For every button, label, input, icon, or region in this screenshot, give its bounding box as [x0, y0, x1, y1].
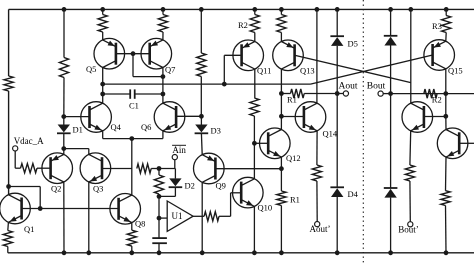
- wire branch right: [9, 186, 41, 188]
- terminal Aout: [339, 82, 358, 97]
- terminal Aout': [310, 222, 331, 235]
- wire R2 to Q11 emitter: [254, 33, 256, 42]
- svg-text:D3: D3: [211, 126, 221, 136]
- wire Q16 collector node up to Bout line: [445, 94, 447, 117]
- svg-text:Q4: Q4: [111, 122, 122, 132]
- node C2 on rail: [157, 250, 162, 255]
- wire bend down into Q3 collector: [88, 149, 90, 155]
- wire top rail to R(Q7): [162, 9, 164, 14]
- resistor R1 horizontal: [287, 89, 304, 105]
- wire Q4/Q6 emitter bus: [103, 138, 163, 140]
- node D4 on rail: [335, 250, 340, 255]
- wire Q16 emitter down: [445, 157, 448, 191]
- wire Q16 collector up: [445, 116, 447, 129]
- svg-text:Ain: Ain: [172, 145, 186, 155]
- wire Q6 emitter down: [162, 131, 164, 139]
- resistor above Q13 (unlabeled): [277, 15, 286, 33]
- op-amp U1: [167, 201, 193, 231]
- wire Q14 emitter down: [316, 131, 318, 165]
- wire rail to R(Q13): [280, 9, 282, 14]
- node D1 / Q2 emitter junction: [61, 146, 66, 151]
- wire Vdac down: [14, 151, 16, 168]
- wire bottom rail: [8, 252, 474, 254]
- node Q4 base on D1 line: [61, 114, 66, 119]
- wire Q5 collector down: [102, 68, 104, 95]
- wire R201 down to Q6 base node: [200, 77, 202, 117]
- wire Vdac right: [15, 167, 20, 169]
- diode D1: [57, 125, 83, 135]
- wire Q4 emitter down: [102, 131, 104, 139]
- diode D3: [195, 125, 221, 136]
- node Q8 emitter on rail: [129, 250, 134, 255]
- node Q3 emitter on rail: [86, 250, 91, 255]
- node R2v on rail: [444, 250, 449, 255]
- wire Q9 base right: [215, 168, 281, 170]
- svg-text:R3: R3: [432, 21, 442, 31]
- wire corner up: [230, 193, 232, 217]
- svg-text:Q13: Q13: [300, 66, 315, 76]
- node top rail x=201.3: [199, 7, 204, 12]
- svg-text:Vdac_A: Vdac_A: [14, 136, 44, 146]
- svg-text:Aout: Aout: [339, 82, 358, 92]
- terminal Bout': [398, 222, 419, 235]
- wire V+ top rail: [9, 8, 474, 10]
- wire node down to Q10 collector: [253, 143, 255, 179]
- wire over to Q7 collector: [133, 76, 163, 78]
- terminal Vdac_A: [13, 136, 45, 151]
- wire Q16 base to right edge: [459, 142, 474, 144]
- wire Q2 collector down to rail: [63, 182, 65, 253]
- wire D3 to Q9 emitter: [200, 133, 203, 154]
- wire Q7 collector down: [162, 68, 164, 95]
- wire Q13 collector down: [280, 69, 282, 93]
- wire top rail to R(Q5): [102, 9, 104, 14]
- node Q5 collector / long line: [100, 82, 105, 87]
- wire Q3 emitter down to rail: [88, 182, 90, 253]
- transistor Q15: [424, 40, 463, 76]
- wire U1 input: [159, 217, 167, 219]
- transistor Q14: [295, 102, 338, 139]
- wire R159 top lead: [158, 169, 160, 176]
- wire diagonal Q13 base to right vertical: [295, 55, 411, 82]
- svg-text:Q2: Q2: [51, 184, 61, 194]
- wire D4b to rail: [390, 198, 392, 253]
- wire D1 to Q2 emitter node: [63, 133, 65, 148]
- wire D4 to rail: [336, 197, 338, 253]
- node Q1 base junction: [38, 206, 43, 211]
- wire R to Q2 base: [37, 167, 51, 169]
- wire Ain line down to D2: [174, 169, 176, 179]
- node D5b line on Bout: [388, 91, 393, 96]
- wire Q14' emitter down: [409, 131, 412, 165]
- resistor above Q5 (unlabeled): [98, 15, 107, 33]
- resistor R2 horizontal: [424, 89, 442, 105]
- wire Q2 emitter up: [63, 149, 65, 155]
- wire top rail down to D5a: [336, 9, 338, 36]
- wire top rail down to D5b: [390, 9, 392, 35]
- wire Q4 base left: [64, 116, 90, 118]
- wire D2 down: [174, 187, 176, 196]
- node top rail x=102.7: [100, 7, 105, 12]
- wire Q9 collector down to rail: [201, 182, 203, 253]
- wire to Q10 base: [231, 192, 241, 194]
- wire D3 lead: [200, 116, 202, 124]
- terminal Ain with overline: [172, 145, 186, 160]
- wire Q10 emitter down to rail: [253, 206, 255, 252]
- wire R to Q7 emitter: [162, 32, 164, 40]
- wire Q1 base: [22, 208, 41, 210]
- node Q10 emitter on rail: [252, 250, 257, 255]
- wire D5a node down to D4: [336, 94, 338, 188]
- node U1 input tap: [157, 216, 162, 221]
- svg-text:D5: D5: [348, 39, 358, 49]
- wire node down: [158, 196, 160, 218]
- resistor above Q7 (unlabeled): [158, 15, 167, 33]
- wire node right to Ain line: [159, 168, 175, 170]
- wire Bout to D5b node: [383, 93, 390, 95]
- svg-text:Q15: Q15: [448, 66, 463, 76]
- resistor Vdac (unlabeled): [21, 164, 38, 173]
- wire long line Q5.C to diagonal: [103, 83, 311, 85]
- wire C2 to rail: [158, 243, 160, 253]
- node Q16 collector / Q14' base: [443, 114, 448, 119]
- svg-text:R1: R1: [290, 195, 300, 205]
- diode D4: [330, 187, 358, 199]
- capacitor C1: [129, 89, 139, 110]
- wire C1 node to Q6 collector: [162, 94, 164, 103]
- wire Q7 base to node: [133, 53, 150, 55]
- node top rail x=390.6: [388, 7, 393, 12]
- node Q15 collector on Bout line: [443, 91, 448, 96]
- node Q6 base / D3 line: [199, 114, 204, 119]
- svg-text:Bout’: Bout’: [398, 225, 419, 235]
- node top rail x=281.4: [279, 7, 284, 12]
- wire left rail lower segment: [8, 91, 10, 195]
- node top rail x=316.9: [315, 7, 320, 12]
- wire U1 output: [193, 215, 204, 217]
- wire Bout line to right edge: [446, 93, 474, 95]
- transistor Q11: [233, 40, 271, 76]
- transistor Q2: [42, 153, 73, 194]
- node Q2 collector on rail: [62, 250, 67, 255]
- wire base bus to Q8: [40, 208, 118, 210]
- wire R to Q5 emitter: [102, 32, 104, 40]
- node top rail x=254.8: [252, 7, 257, 12]
- wire Q3 base right to cross: [102, 168, 132, 170]
- wire diagonal Q15 base to long line end: [311, 55, 433, 84]
- svg-text:R2: R2: [238, 20, 248, 30]
- wire Q14 base: [281, 116, 304, 118]
- resistor x=201 (unlabeled): [197, 53, 206, 77]
- wire top rail down x=201: [200, 9, 202, 53]
- diode D5: [330, 36, 357, 48]
- node divider bottom: [157, 194, 162, 199]
- resistor U1 output (unlabeled): [204, 212, 219, 221]
- node R1v on rail: [279, 250, 284, 255]
- svg-text:Q11: Q11: [257, 66, 271, 76]
- resistor below Q1 (unlabeled): [3, 231, 12, 247]
- wire Q12 emitter down: [280, 157, 282, 169]
- svg-text:Q7: Q7: [165, 65, 175, 75]
- wire emitter bus down to cross: [131, 139, 133, 169]
- svg-text:Q14: Q14: [323, 129, 338, 139]
- transistor Q12: [260, 128, 301, 163]
- svg-text:C1: C1: [129, 101, 139, 111]
- node top rail x=163: [161, 7, 166, 12]
- transistor Q3: [80, 153, 111, 194]
- wire down to Q8 collector: [131, 169, 133, 196]
- resistor below Q8 (unlabeled): [127, 230, 136, 246]
- diode D2: [169, 178, 195, 190]
- diode D4b (unlabeled): [384, 188, 398, 198]
- wire Q15 collector down: [445, 69, 447, 94]
- wire top rail down x=64: [63, 9, 65, 57]
- wire Q13.C node to R1: [281, 93, 290, 95]
- wire node right: [64, 148, 89, 150]
- wire R to bottom rail corner: [7, 247, 9, 253]
- wire Q1 emitter down: [7, 222, 10, 230]
- terminal Bout: [367, 82, 386, 97]
- wire R to corner: [219, 215, 231, 217]
- resistor below Q14 (unlabeled): [312, 165, 321, 181]
- wire Q8 emitter down: [131, 223, 133, 231]
- wire Bout line to Q16 collector node: [391, 93, 446, 95]
- wire D5b node down to D4b: [390, 94, 392, 188]
- wire rail to R3: [445, 9, 447, 15]
- node resistor/divider top: [157, 166, 162, 171]
- wire node down to R1v: [280, 169, 282, 191]
- wire left rail upper segment: [8, 9, 10, 76]
- resistor x=64 (unlabeled): [59, 58, 68, 78]
- node top rail x=64: [62, 7, 67, 12]
- wire R64 to D1: [63, 78, 65, 125]
- svg-text:Q1: Q1: [24, 224, 34, 234]
- node Q12 base junction: [252, 141, 257, 146]
- transistor Q5: [86, 38, 125, 74]
- node Q7 collector / C1: [161, 92, 166, 97]
- transistor Q13: [273, 40, 315, 76]
- wire C1 right: [135, 93, 163, 95]
- transistor Q1: [0, 193, 34, 234]
- wire node up to R1 node: [280, 94, 282, 117]
- wire D5b to Bout node: [390, 46, 392, 94]
- transistor Q10: [233, 177, 273, 212]
- wire top rail down to Q14' collector: [410, 9, 412, 103]
- wire node down to C2: [158, 218, 160, 238]
- node top rail x=337.2: [335, 7, 340, 12]
- svg-text:U1: U1: [172, 211, 183, 221]
- svg-text:R2: R2: [432, 95, 442, 105]
- wire R to Bout' terminal: [409, 181, 411, 222]
- wire R to Q12 base node: [253, 116, 255, 143]
- wire R to rail: [131, 246, 133, 253]
- svg-text:Q9: Q9: [216, 181, 226, 191]
- wire C1 left: [103, 93, 131, 95]
- svg-text:Aout’: Aout’: [310, 224, 331, 234]
- svg-text:Q3: Q3: [93, 184, 103, 194]
- svg-text:Q5: Q5: [86, 64, 96, 74]
- svg-text:R1: R1: [287, 95, 297, 105]
- node Q9 collector on rail: [200, 250, 205, 255]
- wire branch down: [39, 187, 41, 209]
- capacitor C2 (unlabeled): [152, 238, 167, 243]
- resistor mid (unlabeled): [137, 164, 151, 173]
- resistor left-rail (unlabeled): [4, 76, 13, 91]
- wire base node down: [132, 54, 134, 77]
- node Q11 base on long line: [222, 82, 227, 87]
- wire D2 bottom left: [159, 195, 175, 197]
- resistor R3 above Q15: [432, 16, 451, 33]
- wire R3 to Q15 emitter: [445, 33, 447, 42]
- resistor R1 vertical: [277, 191, 300, 206]
- node Q5/Q7 base junction: [131, 51, 136, 56]
- svg-text:D2: D2: [185, 181, 195, 191]
- diode D5b (unlabeled): [384, 36, 398, 46]
- wire Q11 base left: [224, 54, 241, 56]
- wire Ain circle down: [174, 160, 176, 169]
- node emitter bus center: [129, 136, 134, 141]
- wire Q12 base: [254, 142, 268, 144]
- wire rail to R2: [254, 9, 256, 14]
- svg-text:D1: D1: [73, 125, 83, 135]
- wire Q6 base right: [176, 115, 201, 117]
- wire Q12 collector up: [280, 116, 282, 129]
- transistor Q7: [141, 38, 175, 74]
- transistor Q6: [141, 102, 185, 133]
- transistor Q9: [194, 153, 226, 190]
- resistor R2 above Q11: [238, 15, 259, 33]
- node Q5 collector / C1: [100, 92, 105, 97]
- wire R159 bottom lead: [158, 194, 160, 196]
- transistor Q16 (unlabeled): [437, 128, 468, 159]
- wire Q5 base to node: [116, 53, 133, 55]
- wire Q14' base: [424, 116, 446, 118]
- node Q12 emitter / Q9 base: [279, 166, 284, 171]
- node top rail x=446.2: [444, 7, 449, 12]
- resistor R2 vertical (unlabeled): [441, 191, 450, 206]
- wire Q11 base down to long line: [223, 55, 225, 84]
- wire D5a to Aout node: [336, 46, 338, 94]
- transistor Q8: [110, 194, 145, 229]
- wire R2v to rail: [445, 206, 448, 253]
- node D5/D4 line on Aout: [335, 91, 340, 96]
- svg-text:Bout: Bout: [367, 82, 386, 92]
- wire top rail down to Q14 collector: [316, 9, 318, 103]
- wire R1v to rail: [280, 206, 282, 253]
- dotted separator line between A and B channels: [362, 0, 364, 263]
- svg-text:Q6: Q6: [141, 122, 151, 132]
- wire R to Aout' terminal: [316, 181, 318, 222]
- wire R to node159: [151, 168, 159, 170]
- transistor Q14-mirror (unlabeled): [402, 102, 433, 133]
- resistor below Q14' (unlabeled): [405, 165, 414, 181]
- svg-text:D4: D4: [348, 189, 359, 199]
- wire R1 to Aout: [304, 93, 343, 95]
- node Q14 base junction: [279, 114, 284, 119]
- node D4b on rail: [388, 250, 393, 255]
- wire Q11 collector down: [254, 69, 256, 98]
- node left rail branch: [6, 184, 11, 189]
- wire C1 node to Q4 collector: [102, 94, 104, 103]
- wire R to Q13 emitter: [280, 33, 282, 42]
- svg-text:Q8: Q8: [135, 219, 145, 229]
- node Q7 collector tie: [161, 74, 166, 79]
- node top rail x=410.8: [408, 7, 413, 12]
- resistor below Q11 (unlabeled): [250, 98, 259, 116]
- transistor Q4: [81, 102, 122, 133]
- svg-text:Q12: Q12: [286, 153, 301, 163]
- svg-text:Q10: Q10: [258, 203, 273, 213]
- resistor divider lower (unlabeled): [154, 175, 163, 194]
- node Q13 collector / R1: [279, 91, 284, 96]
